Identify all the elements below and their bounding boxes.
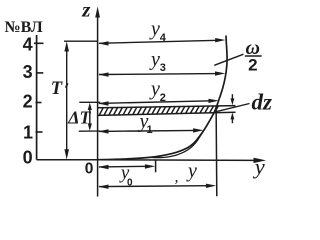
fraction bar omega/2 <box>245 55 262 57</box>
svg-text:y: y <box>253 154 265 179</box>
svg-text:dz: dz <box>252 90 273 115</box>
ruler tick 4 <box>34 42 44 44</box>
y axis arrowhead <box>254 158 267 163</box>
dT arrow shaft <box>89 108 91 126</box>
y2 right arrowhead <box>209 99 219 103</box>
z axis <box>97 17 99 197</box>
y dim left arrowhead <box>98 185 108 189</box>
svg-text:0: 0 <box>85 160 94 177</box>
svg-text:№ВЛ: №ВЛ <box>5 19 43 36</box>
svg-text:y: y <box>149 48 160 70</box>
y dimension line bottom <box>99 185 210 188</box>
svg-text:4: 4 <box>160 32 167 44</box>
ruler tick 3 <box>36 72 43 74</box>
ruler tick 1 <box>36 131 43 133</box>
svg-text:3: 3 <box>160 62 166 74</box>
secant chord <box>151 129 205 158</box>
T arrow up head <box>64 41 69 51</box>
y2 dimension line <box>99 101 212 104</box>
y0 right arrowhead <box>145 164 155 168</box>
bar bottom edge <box>98 112 236 115</box>
extension line level 4 <box>64 40 98 42</box>
y3 right arrowhead <box>215 71 225 75</box>
y3 dimension line <box>99 73 218 76</box>
ruler tick 2 <box>36 102 42 104</box>
dz up arrowhead <box>231 113 235 120</box>
y1 left arrowhead <box>98 129 108 133</box>
y1 right arrowhead <box>193 128 203 132</box>
y axis <box>98 159 255 162</box>
extension line level 1 <box>79 130 100 132</box>
svg-text:2: 2 <box>23 92 33 112</box>
y3 left arrowhead <box>98 72 108 76</box>
svg-text:y: y <box>186 160 197 182</box>
svg-text:2: 2 <box>248 55 257 74</box>
dz up arrow shaft <box>231 119 233 123</box>
velocity profile curve <box>98 36 227 160</box>
y4 right arrowhead <box>215 38 225 42</box>
dT arrow up head <box>88 103 92 110</box>
y4 left arrowhead <box>98 41 108 45</box>
svg-text:,: , <box>175 168 179 185</box>
dz down arrowhead <box>231 98 235 105</box>
svg-text:2: 2 <box>160 92 166 104</box>
dT arrow down head <box>88 123 92 130</box>
y dim right arrowhead <box>206 184 216 188</box>
svg-text:4: 4 <box>23 35 33 55</box>
dz leader <box>216 104 250 112</box>
y2 left arrowhead <box>98 101 108 105</box>
bar top edge <box>98 106 236 108</box>
svg-text:y: y <box>149 18 160 40</box>
right extension line <box>215 106 218 197</box>
hatch strokes of dz layer <box>99 106 218 116</box>
T arrow shaft <box>66 51 68 151</box>
omega/2 leader <box>214 54 243 65</box>
svg-text:T: T <box>51 79 63 99</box>
y0 end tick <box>155 160 157 172</box>
z axis arrowhead <box>95 7 100 18</box>
y0 left arrowhead <box>98 165 108 169</box>
ruler line <box>36 35 38 160</box>
svg-text:ΔT: ΔT <box>67 108 91 128</box>
y0 dimension line <box>99 165 149 168</box>
svg-text:1: 1 <box>147 124 153 136</box>
svg-text:z: z <box>81 0 91 22</box>
svg-text:1: 1 <box>23 122 33 142</box>
wire baseline 0-level <box>37 159 98 161</box>
extension line level 2 <box>79 101 100 103</box>
svg-text:0: 0 <box>127 178 133 189</box>
svg-text:y: y <box>149 78 160 100</box>
svg-text:0: 0 <box>23 148 33 168</box>
svg-text:3: 3 <box>23 62 33 82</box>
T arrow down head <box>64 149 69 159</box>
y1 dimension line <box>99 130 197 131</box>
y4 dimension line <box>99 40 218 43</box>
dz down arrow shaft <box>231 94 233 99</box>
